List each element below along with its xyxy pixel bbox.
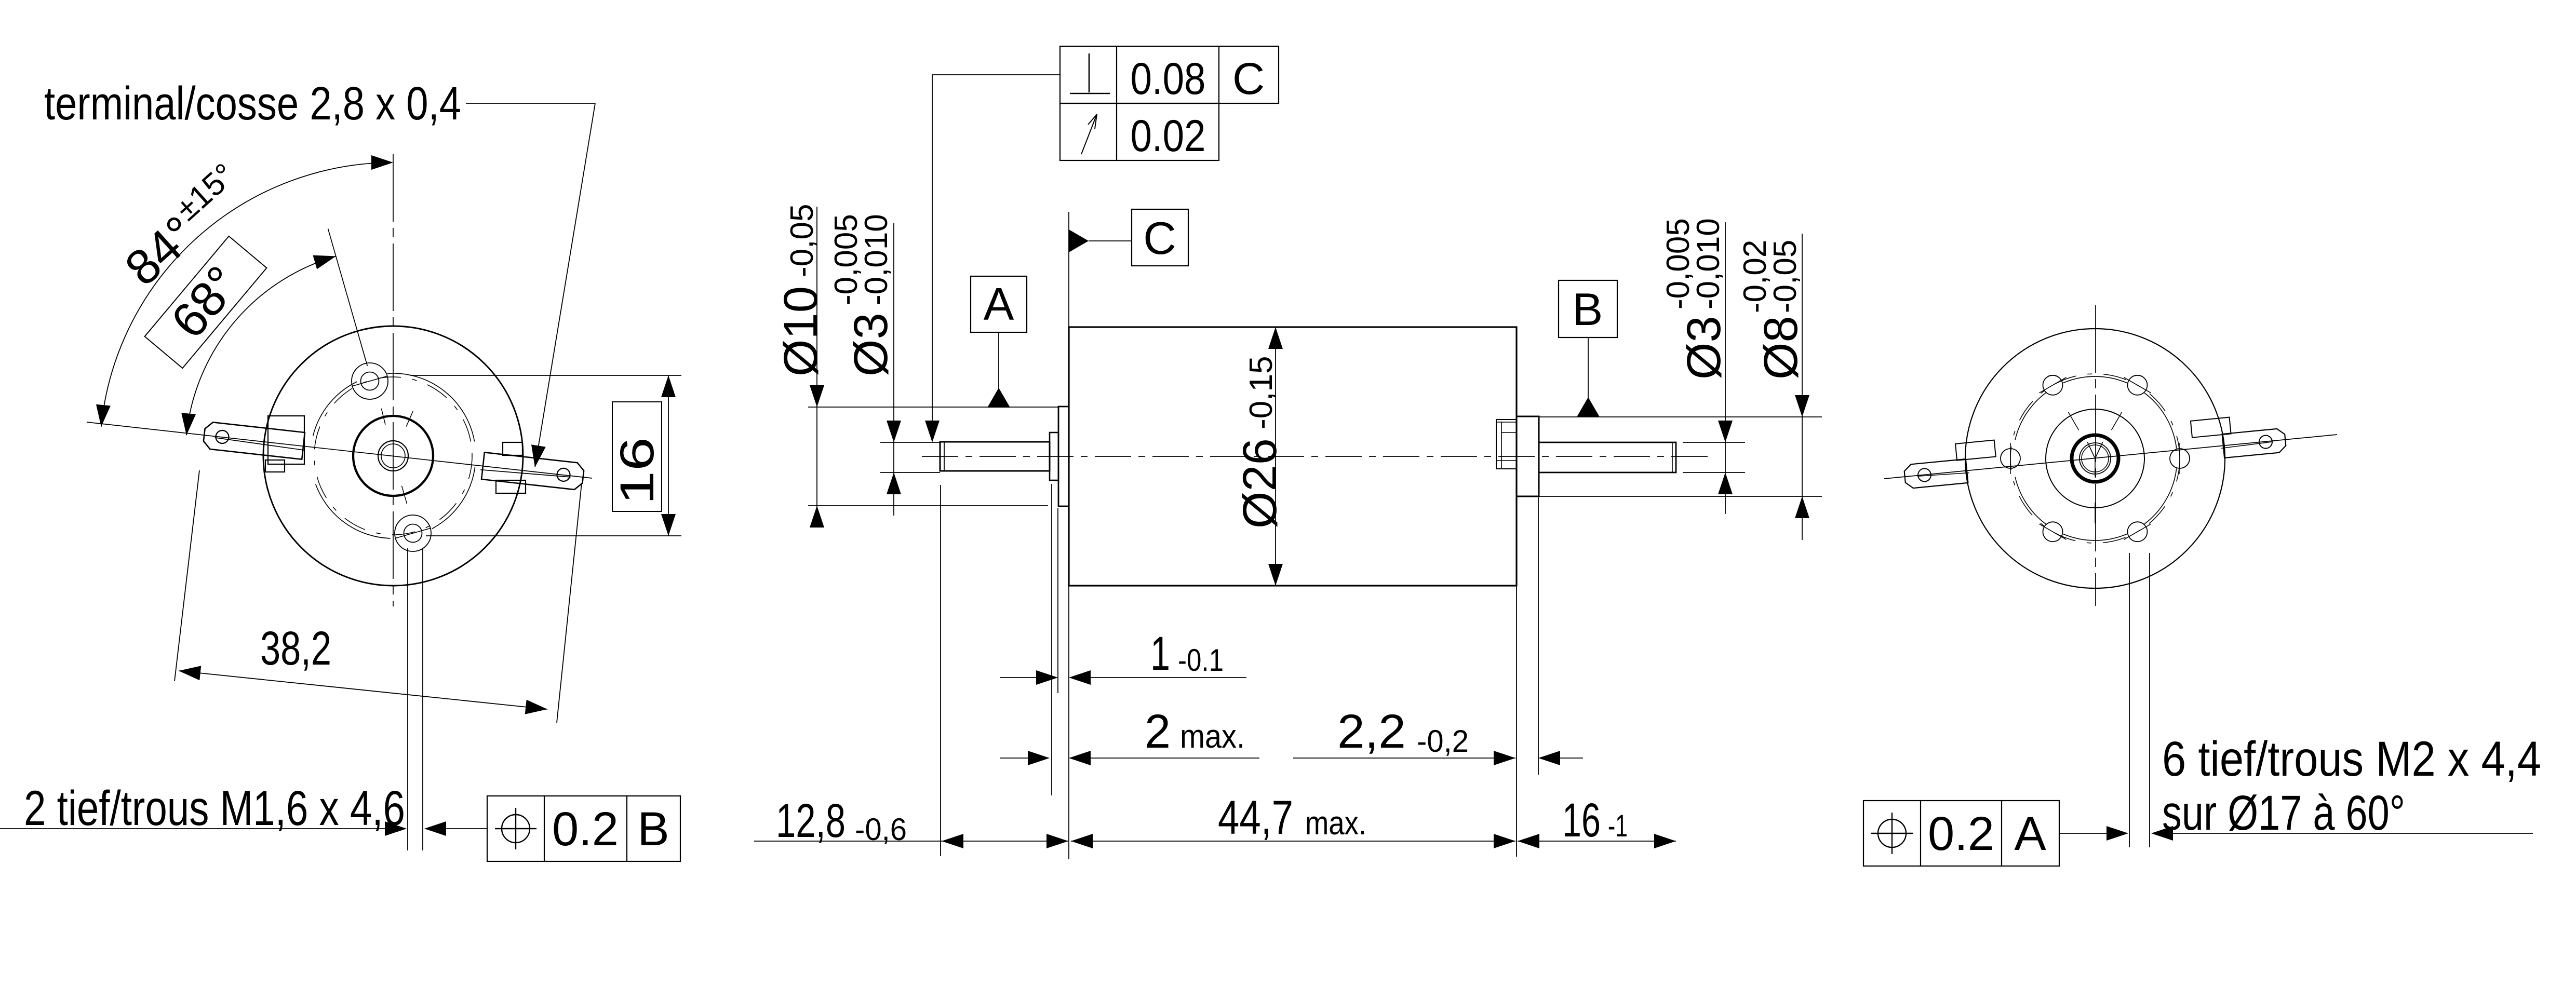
Ø3 right arrow bottom: [1718, 472, 1733, 494]
rear view bolt circle Ø17 dash-dot: [2010, 374, 2180, 543]
label 16 tol -1: [1608, 808, 1628, 843]
68° arc arrow lower: [181, 413, 196, 435]
38,2 dim arrow left: [179, 666, 201, 680]
M2 arrow left-pointing: [2151, 826, 2173, 841]
dim 44,7 arrow right: [1494, 834, 1515, 848]
label 2: [1145, 705, 1171, 758]
Ø10 arrow bottom: [810, 506, 824, 528]
svg-text:-1: -1: [1608, 808, 1628, 843]
label Ø10 -0,05: [774, 204, 827, 376]
svg-text:0.2: 0.2: [1928, 807, 1994, 860]
FCF B value 0.2: [552, 803, 619, 856]
ext line rear face down: [1516, 586, 1517, 857]
dim 2max tail left: [1000, 758, 1029, 759]
16 dim arrow down: [661, 514, 676, 536]
svg-text:C: C: [1232, 54, 1265, 104]
svg-text:B: B: [1573, 283, 1603, 335]
84° arc arrow top: [371, 155, 393, 170]
svg-text:0.02: 0.02: [1131, 111, 1206, 161]
ext line shaft tip: [940, 485, 941, 856]
dim 2,2 arrow left-pointing: [1538, 751, 1560, 765]
dim 16 line: [1518, 841, 1676, 842]
label 12,8 tol -0,6: [855, 812, 907, 847]
dim 12,8 arrow left: [942, 834, 963, 848]
Ø26 arrow top: [1268, 327, 1283, 349]
ext line front face down: [1068, 586, 1069, 859]
svg-text:A: A: [2014, 807, 2046, 860]
svg-text:2,2: 2,2: [1337, 705, 1406, 758]
rear view outer circle: [1965, 329, 2225, 588]
dim 12,8 line: [754, 841, 1068, 842]
svg-text:0.08: 0.08: [1131, 54, 1206, 104]
label 12,8: [776, 794, 846, 847]
front view vertical centerline: [393, 154, 394, 606]
label Ø26 -0,15: [1233, 356, 1286, 529]
svg-text:16: 16: [1562, 794, 1601, 847]
front view terminal axis line: [87, 422, 592, 478]
dim 1-0.1 tail left: [1000, 677, 1037, 678]
Ø10 extension top: [808, 407, 1058, 408]
datum B leader: [1588, 337, 1589, 398]
front view dash through top hole: [352, 376, 387, 386]
feature control frame ⌖ 0.2 B box: [487, 796, 680, 861]
rear view right terminal tab: [2221, 429, 2286, 458]
Ø3 right extension bottom: [1683, 472, 1745, 473]
Ø3 right arrow top: [1718, 421, 1733, 442]
M1,6 hole extension line left: [407, 548, 408, 850]
label 44,7: [1218, 791, 1293, 844]
basic dimension box 68°: [145, 236, 267, 368]
front view hub circle: [353, 416, 433, 496]
label Ø3 -0,005/-0,010: [828, 214, 897, 376]
FCF leader arrow: [925, 421, 940, 442]
label 2,2: [1337, 705, 1406, 758]
Ø10 dim line: [816, 207, 817, 521]
ext line boss face: [1057, 508, 1058, 693]
svg-text:max.: max.: [1305, 804, 1366, 842]
Ø3 left dim line: [893, 223, 894, 516]
dim 16-1 arrow left: [1518, 834, 1539, 848]
label 16 rotated: [611, 437, 664, 505]
terminal label leader arrow: [531, 444, 546, 467]
front view left terminal tab: [204, 422, 305, 459]
front view dash through bottom hole: [395, 528, 431, 538]
datum A box: [971, 276, 1027, 332]
svg-text:max.: max.: [1180, 718, 1245, 755]
ext line rear boss face down: [1538, 497, 1539, 775]
dim 44,7 arrow left: [1071, 834, 1093, 848]
perpendicularity symbol: [1070, 53, 1110, 93]
16 dim frame box: [612, 402, 662, 511]
svg-text:-0,6: -0,6: [855, 812, 907, 847]
svg-text:C: C: [1143, 212, 1176, 264]
FCF A leader line: [2059, 833, 2107, 834]
side view rear boss Ø8: [1517, 416, 1539, 496]
front view right brush housing: [496, 442, 526, 493]
Ø3 left extension bottom: [880, 472, 940, 473]
front view hub tick lower: [402, 486, 407, 504]
16 dim extension line bottom: [426, 535, 681, 536]
FCF B datum letter B: [637, 803, 669, 856]
position symbol in FCF A: [1871, 813, 1913, 854]
rear view shaft circle: [2079, 443, 2111, 474]
dim 16-1 arrow right: [1654, 834, 1676, 848]
FCF A value 0.2: [1928, 807, 1994, 860]
Ø26 dim line: [1275, 327, 1276, 586]
dim 1-0.1 tail right: [1090, 677, 1246, 678]
svg-text:2 tief/trous M1,6 x 4,6: 2 tief/trous M1,6 x 4,6: [24, 781, 405, 836]
datum A letter: [984, 278, 1014, 330]
FCF runout box: [1060, 103, 1219, 160]
label Ø8 -0,02/-0,05: [1737, 240, 1807, 380]
M1,6 arrow left-pointing: [424, 821, 446, 836]
label Ø3 right -0,005/-0,010: [1660, 218, 1730, 380]
dim 2max arrow right-pointing: [1028, 751, 1050, 765]
label -0.1: [1178, 643, 1224, 678]
svg-text:B: B: [637, 803, 669, 856]
svg-text:1: 1: [1150, 627, 1170, 680]
side view rear bearing detail: [1496, 420, 1517, 469]
side view front shaft Ø3: [940, 442, 1050, 471]
FCF perpendicularity value 0.08: [1131, 54, 1206, 104]
rear view axis line: [1884, 435, 2337, 479]
Ø26 arrow bottom: [1268, 564, 1283, 586]
Ø3 left arrow bottom: [887, 472, 901, 494]
rear view inner tick bottom: [2095, 503, 2096, 523]
rear view right brush housing: [2191, 417, 2231, 438]
Ø10 extension bottom: [808, 505, 1048, 506]
dim 1-0.1 arrow right-pointing: [1036, 670, 1058, 685]
dim 2,2 tail right: [1559, 758, 1583, 759]
16 dim line: [668, 375, 669, 536]
label 2,2 tol -0,2: [1417, 724, 1469, 759]
svg-text:12,8: 12,8: [776, 794, 846, 847]
feature control frame ⌖ 0.2 A box: [1863, 801, 2059, 866]
FCF perpendicularity datum C: [1232, 54, 1265, 104]
svg-text:16: 16: [611, 437, 664, 505]
label 1: [1150, 627, 1170, 680]
datum C leader: [1089, 240, 1132, 241]
front view right terminal tab: [480, 452, 584, 490]
Ø3 left arrow top: [887, 421, 901, 442]
datum A triangle: [987, 388, 1010, 408]
angular dimension 84° arc: [101, 163, 392, 427]
datum C letter: [1143, 212, 1176, 264]
label 6 tief/trous M2 x 4,4: [2162, 732, 2541, 787]
label 44,7 max.: [1305, 804, 1366, 842]
datum A leader: [998, 332, 999, 389]
front view screw hole bottom inner: [404, 524, 422, 543]
rear view inner tick upper-right: [2112, 412, 2122, 430]
rear view six M2 tapped holes: [2001, 375, 2190, 542]
label 68°: [160, 256, 251, 348]
dim 44,7 line: [1071, 841, 1515, 842]
Ø3 right extension top: [1683, 442, 1745, 443]
label 84° ±15°: [115, 157, 242, 296]
svg-text:0.2: 0.2: [552, 803, 619, 856]
M2 leader tail: [2173, 833, 2533, 834]
front view radial line to top hole: [328, 229, 368, 366]
dim 1-0.1 arrow left-pointing: [1069, 670, 1091, 685]
terminal label leader: [466, 103, 595, 467]
M1,6 leader line left: [0, 828, 385, 829]
M2 arrow right-pointing: [2107, 826, 2128, 841]
dim 12,8 arrow right: [1046, 834, 1068, 848]
front view screw hole bottom outer: [395, 515, 431, 551]
circular runout symbol: [1081, 114, 1097, 154]
side view motor body Ø26: [1069, 327, 1517, 586]
rear view left brush housing: [1955, 440, 1996, 461]
FCF A datum letter A: [2014, 807, 2046, 860]
label 2 max.: [1180, 718, 1245, 755]
M2 hole extension line right: [2149, 553, 2150, 847]
rear view dashes through holes: [2010, 377, 2180, 539]
datum B letter: [1573, 283, 1603, 335]
Ø10 arrow top: [810, 385, 824, 407]
Ø8 arrow bottom: [1795, 496, 1809, 518]
M1,6 hole extension line right: [422, 548, 423, 850]
84° arc arrow left: [96, 404, 111, 427]
38,2 dim line: [179, 671, 547, 709]
svg-text:2: 2: [1145, 705, 1171, 758]
FCF runout value 0.02: [1131, 111, 1206, 161]
datum C triangle: [1069, 229, 1089, 252]
front view screw hole top outer: [352, 363, 388, 399]
angular dimension 68° arc: [186, 256, 336, 436]
rear view inner tick upper-left: [2069, 412, 2079, 430]
dim 2max arrow left-pointing: [1069, 751, 1091, 765]
rear view brush plate arcs: [2015, 376, 2177, 540]
label terminal/cosse 2,8 x 0,4: [44, 78, 461, 130]
label 16 length: [1562, 794, 1601, 847]
38,2 dim arrow right: [525, 700, 547, 714]
front view hub tick upper-left: [381, 409, 385, 425]
svg-text:6 tief/trous M2 x 4,4: 6 tief/trous M2 x 4,4: [2162, 732, 2541, 787]
M1,6 leader line right: [446, 828, 487, 829]
svg-text:44,7: 44,7: [1218, 791, 1293, 844]
Ø8 extension bottom: [1539, 496, 1822, 497]
datum B triangle: [1577, 397, 1600, 417]
68° arc arrow upper: [313, 255, 336, 269]
Ø3 left extension top: [880, 442, 940, 443]
FCF leader line: [932, 75, 1060, 422]
side view axis centerline: [922, 456, 1714, 457]
Ø8 dim line: [1802, 234, 1803, 540]
svg-text:A: A: [984, 278, 1014, 330]
svg-text:sur Ø17 à 60°: sur Ø17 à 60°: [2162, 786, 2405, 841]
38,2 dim extension line left: [175, 470, 199, 681]
front view screw hole top inner: [361, 372, 379, 390]
front view bolt circle (dash-dot): [314, 377, 472, 535]
rear view vertical centerline: [2095, 305, 2096, 606]
dim 2max tail right: [1090, 758, 1259, 759]
position symbol in FCF B: [495, 808, 536, 849]
rear view left terminal tab: [1904, 459, 1969, 488]
svg-text:terminal/cosse 2,8 x 0,4: terminal/cosse 2,8 x 0,4: [44, 78, 461, 130]
front view brush plate arcs: [313, 373, 475, 538]
Ø3 right dim line: [1725, 222, 1726, 514]
front view shaft circle inner: [381, 444, 405, 468]
side view rear shaft Ø3 threaded: [1539, 442, 1676, 472]
16 dim extension line top: [410, 375, 681, 376]
datum B box: [1559, 280, 1617, 337]
FCF perpendicularity box: [1060, 46, 1279, 103]
dim 2,2 arrow right-pointing: [1494, 751, 1515, 765]
ext line collar face: [1051, 484, 1052, 795]
rear view hub thick ring: [2072, 435, 2118, 482]
rear view bearing circle: [2046, 409, 2144, 508]
label 38,2: [260, 622, 331, 675]
dim 2,2 line: [1293, 758, 1515, 759]
rear view shaft inner circle: [2082, 445, 2109, 472]
Ø8 arrow top: [1795, 395, 1809, 417]
front view motor outer circle Ø26: [263, 326, 523, 586]
rear view shaft end chamfer lines: [2087, 442, 2103, 477]
38,2 dim extension line right: [557, 483, 582, 723]
Ø8 extension top: [1539, 416, 1822, 417]
label 2 tief/trous M1,6 x 4,6: [24, 781, 405, 836]
side view front boss Ø10: [1058, 407, 1069, 506]
svg-text:-0,2: -0,2: [1417, 724, 1469, 759]
datum C box: [1132, 209, 1188, 266]
M2 hole extension line left: [2129, 553, 2130, 847]
svg-text:38,2: 38,2: [260, 622, 331, 675]
front face extension line up: [1068, 212, 1069, 327]
front view hub tick upper-right: [406, 411, 413, 426]
front view left brush housing: [265, 416, 304, 472]
front view shaft circle outer: [378, 441, 408, 471]
label sur Ø17 à 60°: [2162, 786, 2405, 841]
side view collar ring: [1050, 432, 1058, 480]
M1,6 arrow right-pointing: [385, 821, 407, 836]
16 dim arrow up: [661, 375, 676, 397]
svg-text:-0.1: -0.1: [1178, 643, 1224, 678]
